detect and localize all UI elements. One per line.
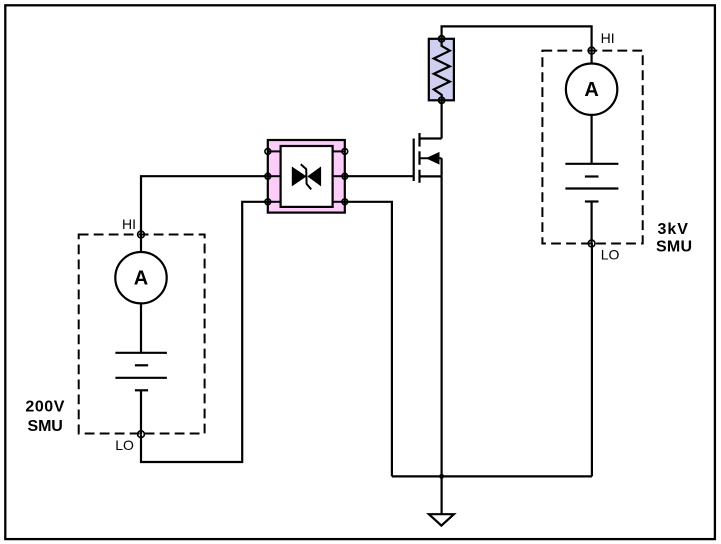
wire resistor-bottom to MOSFET drain bbox=[441, 100, 443, 138]
svg-text:SMU: SMU bbox=[28, 418, 63, 435]
svg-text:LO: LO bbox=[115, 437, 134, 453]
svg-text:3kV: 3kV bbox=[657, 221, 688, 238]
battery V1 (200V SMU) bbox=[115, 353, 166, 391]
ground bbox=[429, 476, 454, 525]
label 200V SMU bbox=[25, 399, 64, 435]
wire resistor-top to 3kV SMU HI bbox=[442, 26, 592, 50]
op-amp ammeter A1 (200V SMU) bbox=[115, 252, 166, 303]
node HI terminal (200V SMU) bbox=[122, 216, 144, 238]
junction ground node bbox=[439, 474, 444, 479]
wire HI terminal to ammeter (3kV SMU) bbox=[590, 51, 592, 64]
wire TVS right-mid pin to MOSFET gate bbox=[345, 175, 414, 177]
resistor R1 bbox=[429, 36, 454, 104]
wire ammeter to battery (3kV SMU) bbox=[590, 115, 592, 164]
node HI terminal (3kV SMU) bbox=[588, 30, 614, 54]
wire bottom bus bbox=[392, 475, 592, 477]
svg-text:SMU: SMU bbox=[656, 239, 692, 256]
3kV SMU dashed enclosure bbox=[542, 51, 642, 244]
200V SMU dashed enclosure bbox=[79, 235, 205, 434]
TVS protection module D1 (pink box) bbox=[265, 140, 348, 213]
wire 200V SMU HI to TVS left-mid pin bbox=[141, 176, 268, 234]
wire MOSFET source down to bottom bus bbox=[441, 176, 443, 476]
wire battery to LO terminal (3kV SMU) bbox=[590, 202, 592, 244]
svg-text:200V: 200V bbox=[25, 399, 64, 416]
label 3kV SMU bbox=[656, 221, 692, 256]
svg-text:HI: HI bbox=[122, 216, 136, 232]
wire 3kV SMU LO down to bottom bus bbox=[591, 244, 593, 477]
node LO terminal (200V SMU) bbox=[115, 431, 144, 453]
wire HI terminal to ammeter (200V SMU) bbox=[140, 235, 142, 253]
svg-text:HI: HI bbox=[601, 30, 615, 46]
transistor Q1 (N-MOSFET) bbox=[414, 133, 442, 183]
node LO terminal (3kV SMU) bbox=[588, 240, 619, 262]
wire ammeter to battery (200V SMU) bbox=[140, 303, 142, 352]
op-amp ammeter A2 (3kV SMU) bbox=[566, 63, 617, 114]
svg-text:A: A bbox=[134, 268, 148, 290]
wire battery to LO terminal (200V SMU) bbox=[140, 390, 142, 434]
svg-text:A: A bbox=[584, 79, 598, 101]
wire 200V SMU LO to TVS left-bottom pin bbox=[141, 202, 268, 462]
wire TVS right-bottom pin to bottom bus bbox=[345, 202, 392, 477]
battery V2 (3kV SMU) bbox=[565, 164, 618, 202]
svg-text:LO: LO bbox=[601, 246, 620, 262]
